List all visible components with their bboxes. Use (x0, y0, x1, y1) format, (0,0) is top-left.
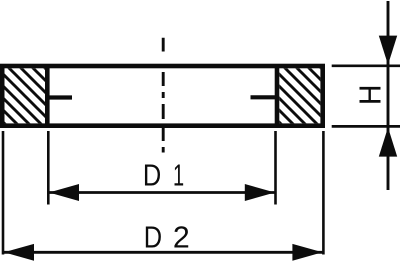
D2 extension line left (2, 131, 5, 255)
inner bore edge right (275, 66, 280, 126)
right hatched section (279, 68, 320, 123)
H arrow bottom (pointing up) (379, 127, 397, 156)
H arrow top (pointing down) (379, 36, 397, 65)
D1 extension line left (47, 131, 50, 205)
H extension line top (332, 64, 400, 67)
washer cross-section outer outline (2, 66, 323, 126)
D2 arrow left (4, 244, 34, 261)
D2 dimension line (3, 251, 323, 254)
left mid tick (45, 95, 72, 99)
svg-text:D: D (144, 220, 162, 255)
svg-text:D: D (143, 158, 161, 193)
right mid tick (251, 95, 278, 99)
inner bore edge left (45, 66, 50, 126)
svg-text:1: 1 (173, 157, 184, 193)
H dimension line (387, 1, 390, 190)
H extension line bottom (332, 125, 400, 128)
svg-text:2: 2 (173, 219, 190, 254)
D1 dimension line (48, 191, 275, 194)
svg-text:H: H (353, 85, 388, 105)
D1 arrow left (49, 184, 79, 201)
D1 arrow right (245, 184, 275, 201)
D2 arrow right (292, 244, 322, 261)
vertical centerline (dash segments) (162, 38, 165, 153)
D1 extension line right (274, 131, 277, 205)
left hatched section (5, 68, 46, 123)
D2 extension line right (322, 131, 325, 255)
